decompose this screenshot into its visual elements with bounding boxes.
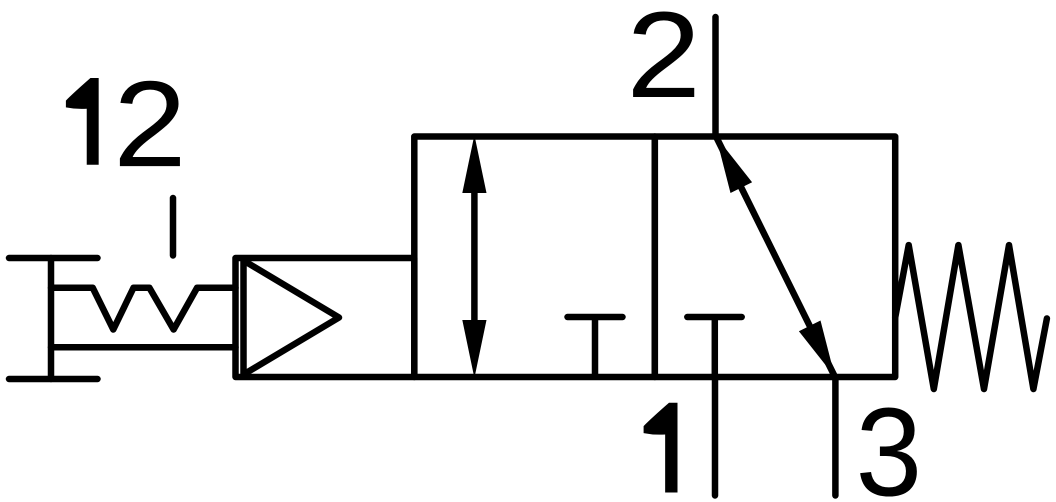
pilot port 12 terminal bar top xyxy=(9,255,98,262)
pilot lower line xyxy=(51,344,236,351)
port 2 line xyxy=(712,17,719,137)
svg-text:2: 2 xyxy=(626,0,701,124)
label 3 xyxy=(856,382,922,502)
blocked port symbol left cell stub xyxy=(592,317,599,377)
pilot port 12 terminal stem xyxy=(48,258,55,379)
pilot amplifier box xyxy=(236,258,415,377)
port 3 line xyxy=(832,377,839,496)
pilot port 12 terminal bar bottom xyxy=(9,376,98,383)
svg-text:2: 2 xyxy=(113,56,186,193)
return spring xyxy=(895,245,1047,389)
flow arrow left cell shaft xyxy=(471,180,478,330)
blocked port symbol right cell stub xyxy=(712,317,719,377)
flow arrow 2-3 head at port 2 xyxy=(716,137,752,194)
svg-text:3: 3 xyxy=(856,382,922,502)
blocked port symbol right cell bar xyxy=(687,314,741,321)
label 2 xyxy=(626,0,701,124)
valve body left cell xyxy=(414,137,655,378)
blocked port symbol left cell bar xyxy=(568,314,623,321)
flow arrow 2-3 diagonal shaft xyxy=(716,137,835,378)
flow arrow left cell head up xyxy=(462,135,486,193)
label 12 digit 1 xyxy=(66,78,99,165)
label 1 xyxy=(644,403,678,493)
pilot triangle xyxy=(244,261,340,375)
pilot upper line with spring zigzag xyxy=(51,288,236,330)
leader line for label 12 xyxy=(170,198,177,256)
flow arrow left cell head down xyxy=(462,320,486,378)
label 12 digit 2 xyxy=(113,56,186,193)
valve body right cell xyxy=(655,137,895,378)
flow arrow 2-3 head at port 3 xyxy=(799,321,835,378)
port 1 line xyxy=(712,377,719,496)
